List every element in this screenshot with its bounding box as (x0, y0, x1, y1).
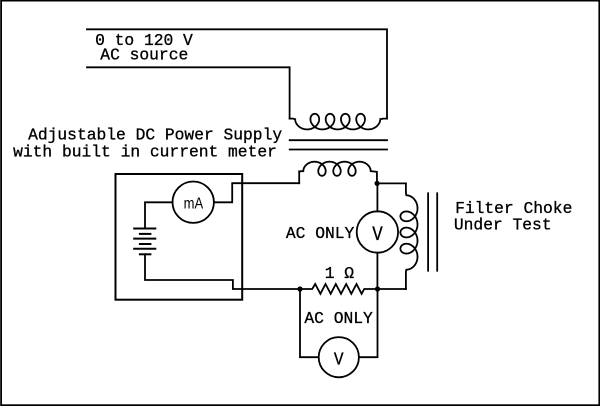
wire: node C down to voltmeter V2 (359, 289, 378, 357)
wire: ammeter right lead to supply output top (214, 183, 299, 202)
transformer T1 secondary winding (299, 162, 377, 184)
svg-text:mA: mA (184, 195, 204, 212)
wire: ammeter left lead to battery (145, 202, 173, 228)
svg-text:V: V (372, 224, 383, 247)
svg-text:with built in current meter: with built in current meter (13, 142, 277, 161)
battery B1 (134, 228, 155, 230)
wire: choke bottom to node B (378, 288, 406, 290)
DC power supply box (116, 174, 243, 300)
wire: node B down to voltmeter V2 (300, 289, 319, 357)
wire: AC source top lead (87, 29, 387, 118)
transformer T1 core (290, 139, 387, 141)
node A junction dot (375, 181, 380, 186)
filter choke L1 winding (400, 183, 417, 289)
ammeter M1 circle (173, 182, 214, 223)
voltmeter V2 circle (319, 337, 359, 377)
node C junction dot (resistor right) (375, 286, 380, 291)
voltmeter V1 circle (357, 211, 398, 252)
transformer T1 primary winding (290, 114, 387, 130)
node B junction dot (resistor left) (297, 286, 302, 291)
wire: voltmeter V1 bottom lead (376, 253, 378, 289)
resistor R1 1 ohm (300, 284, 378, 294)
svg-text:V: V (334, 351, 344, 371)
wire: node A to choke top (377, 182, 406, 184)
svg-text:Under Test: Under Test (454, 215, 552, 234)
svg-text:1 Ω: 1 Ω (325, 264, 355, 283)
wire: secondary left riser (298, 171, 300, 183)
svg-text:AC source: AC source (100, 46, 188, 65)
svg-text:AC ONLY: AC ONLY (286, 224, 355, 243)
wire: node A to voltmeter V1 (376, 183, 378, 211)
wire: AC source bottom lead (87, 67, 290, 118)
filter choke core (427, 193, 429, 270)
wire: battery negative to supply output bottom (145, 254, 300, 289)
svg-text:AC ONLY: AC ONLY (304, 309, 373, 328)
